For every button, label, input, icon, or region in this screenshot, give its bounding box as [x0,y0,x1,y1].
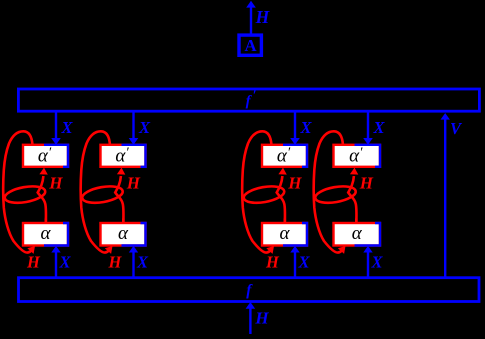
box alpha4 [334,223,381,246]
box alpha3 [262,223,307,246]
svg-text:H: H [26,252,41,271]
blue border segment on alpha'2 (X wire wrap) [122,145,146,167]
box alpha2 [101,223,146,246]
blue border segment on alpha'4 (X wire wrap) [355,145,381,167]
svg-text:H: H [359,173,374,192]
svg-text:H: H [255,7,271,27]
wire X2 upper: from f' down to alpha'2 [132,112,134,140]
box f' (upper network) [18,89,479,111]
svg-text:A: A [245,36,257,55]
red wire: recurrent loop from alpha'4 around left into alpha4 [314,131,343,252]
box alpha'4 [334,145,381,167]
red wire: recurrent loop from alpha'1 around left into alpha1 [3,131,32,252]
red wire H: from alpha2 top up into alpha'2 bottom [115,176,123,223]
box alpha'2 [101,145,146,167]
box alpha'1 [23,145,68,167]
svg-text:X: X [371,252,384,271]
svg-text:X: X [61,118,74,137]
arrowhead X3 into alpha'3 top [290,138,299,145]
wire X3 upper: from f' down to alpha'3 [294,112,296,140]
arrowhead of H wire into alpha'1 bottom [39,168,47,175]
svg-text:α: α [118,223,129,244]
red wire stub from alpha3 top [283,219,286,224]
red ring (chain link) of column 3 [243,184,286,206]
red wire H: from alpha3 top up into alpha'3 bottom [277,176,285,223]
blue border segment on alpha1 (X wire wrap) [44,223,68,246]
arrowhead X4 into alpha4 bottom [363,246,372,253]
red ring (chain link) of column 2 [81,184,124,206]
arrowhead X3 into alpha3 bottom [290,246,299,253]
arrowhead X2 into alpha2 bottom [129,246,138,253]
box f (lower network) [19,278,480,302]
svg-text:H: H [265,252,280,271]
svg-text:α: α [280,223,291,244]
arrowhead of bottom input arrow into f [246,302,256,309]
svg-text:X: X [136,252,149,271]
red wire H: from alpha4 top up into alpha'4 bottom [348,176,356,223]
svg-text:X: X [373,118,386,137]
red ring (chain link) of column 4 [314,184,357,206]
arrowhead of loop into alpha3 bottom [266,246,274,254]
svg-text:α: α [352,223,363,244]
svg-text:X: X [59,252,72,271]
red ring (chain link) of column 1 [4,184,47,206]
red wire stub from alpha2 top [122,219,125,224]
blue border segment on alpha'3 (X wire wrap) [283,145,307,167]
wire X3 lower: from f up to alpha3 [294,252,296,278]
svg-text:X: X [300,118,313,137]
svg-text:α: α [41,223,52,244]
arrowhead of H wire into alpha'3 bottom [278,168,286,175]
svg-text:X: X [138,118,151,137]
arrowhead of H wire into alpha'2 bottom [117,168,125,175]
wire: output arrow above analyzer A [250,6,252,34]
svg-text:X: X [298,252,311,271]
svg-text:H: H [254,309,269,328]
red wire H: from alpha1 top up into alpha'1 bottom [38,176,46,223]
svg-text:H: H [126,173,141,192]
box alpha'3 [262,145,307,167]
red wire: recurrent loop from alpha'3 around left into alpha3 [242,131,271,252]
blue border segment on alpha2 (X wire wrap) [122,223,146,246]
wire X2 lower: from f up to alpha2 [132,252,134,278]
arrowhead of loop into alpha2 bottom [105,246,113,254]
blue border segment on alpha3 (X wire wrap) [283,223,307,246]
svg-text:H: H [287,173,302,192]
svg-text:H: H [48,173,63,192]
box alpha1 [23,223,68,246]
arrowhead of loop into alpha4 bottom [338,246,346,254]
wire X1 upper: from f' down to alpha'1 [55,112,57,140]
wire X4 lower: from f up to alpha4 [367,252,369,278]
arrowhead X2 into alpha'2 top [129,138,138,145]
arrowhead X4 into alpha'4 top [363,138,372,145]
box A (analyzer unit) [239,35,261,55]
wire: input arrow into f from below [249,306,251,334]
blue border segment on alpha4 (X wire wrap) [355,223,381,246]
blue border segment on alpha'1 (X wire wrap) [44,145,68,167]
svg-text:H: H [108,252,123,271]
red wire stub from alpha1 top [44,219,47,224]
arrowhead of loop into alpha1 bottom [27,246,35,254]
red wire: recurrent loop from alpha'2 around left into alpha2 [81,131,110,252]
red wire stub from alpha4 top [355,219,358,224]
arrowhead of top output arrow [246,1,256,8]
wire X4 upper: from f' down to alpha'4 [367,112,369,140]
arrowhead of V wire into f' [441,113,450,120]
arrowhead X1 into alpha1 bottom [51,246,60,253]
wire V: from f up to f' [444,118,446,278]
wire X1 lower: from f up to alpha1 [55,252,57,278]
arrowhead of H wire into alpha'4 bottom [350,168,358,175]
arrowhead X1 into alpha'1 top [51,138,60,145]
